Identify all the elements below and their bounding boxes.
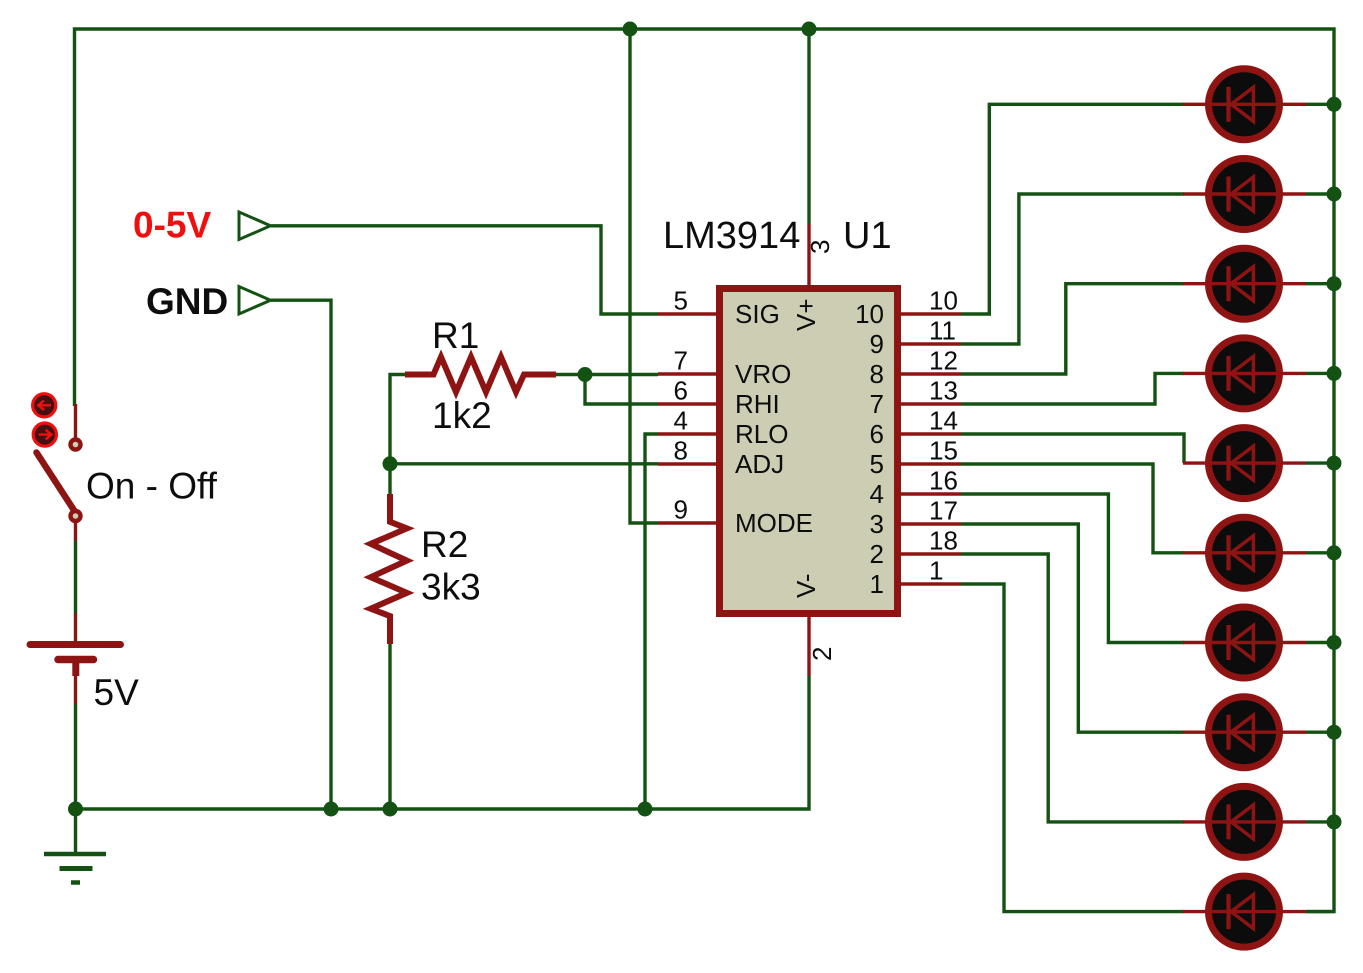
switch SW1 bottom pin stub [74, 522, 77, 541]
switch SW1 bottom contact [71, 511, 81, 521]
U1 output pin 17 stub [898, 522, 961, 525]
LED D1 [1183, 69, 1306, 140]
svg-text:1: 1 [870, 569, 884, 599]
U1 output pin 11 stub [898, 342, 961, 345]
svg-text:5V: 5V [94, 672, 140, 713]
svg-text:V+: V+ [791, 298, 821, 331]
LED D5 [1183, 428, 1306, 499]
U1 output pin 15 stub [898, 462, 961, 465]
svg-text:17: 17 [929, 496, 958, 526]
wire 0-5V input to SIG pin 5 [271, 226, 658, 314]
svg-text:ADJ: ADJ [735, 449, 784, 479]
wire ground symbol stub [74, 809, 77, 852]
svg-text:11: 11 [929, 316, 956, 346]
battery BAT1 bottom pin stub [74, 676, 77, 704]
switch SW1 blade [37, 453, 75, 512]
LED D7 [1183, 607, 1306, 678]
svg-text:GND: GND [146, 281, 228, 322]
svg-text:15: 15 [929, 436, 958, 466]
U1 output pin 16 stub [898, 492, 961, 495]
ground [44, 852, 106, 857]
svg-text:13: 13 [929, 376, 958, 406]
svg-text:8: 8 [674, 436, 688, 466]
svg-text:12: 12 [929, 346, 958, 376]
svg-text:1: 1 [929, 556, 943, 586]
switch SW1 actuator button down [33, 423, 56, 446]
svg-text:6: 6 [870, 419, 884, 449]
svg-text:SIG: SIG [735, 299, 780, 329]
svg-text:9: 9 [870, 329, 884, 359]
U1 output pin 1 stub [898, 582, 961, 585]
U1 pin 4 RLO stub [658, 432, 719, 435]
junction R1-ADJ-R2 node [383, 456, 398, 471]
svg-text:0-5V: 0-5V [133, 205, 211, 246]
wire U1 output row 2 to LED D2 [961, 194, 1184, 344]
LED D8 [1183, 697, 1306, 768]
wire LED anode bus connections [1306, 103, 1334, 106]
svg-text:3: 3 [870, 509, 884, 539]
wire V+ to MODE pin 9 [630, 29, 658, 523]
junction LED bus row 9 [1327, 814, 1342, 829]
wire RLO pin 4 to ground rail [645, 434, 658, 809]
junction LED bus row 8 [1327, 725, 1342, 740]
terminal 0-5V [239, 212, 271, 240]
resistor R2 [371, 494, 407, 644]
wire U1 output row 7 to LED D7 [961, 494, 1184, 643]
wire U1 output row 8 to LED D8 [961, 524, 1184, 732]
U1 pin 2 V- stub [807, 613, 810, 676]
junction LED bus row 4 [1327, 366, 1342, 381]
svg-text:10: 10 [929, 286, 958, 316]
svg-text:MODE: MODE [735, 508, 813, 538]
wire U1 output row 9 to LED D9 [961, 554, 1184, 822]
U1 output pin 18 stub [898, 552, 961, 555]
wire U1 output row 5 to LED D5 [961, 434, 1184, 463]
U1 pin 3 V+ stub [807, 224, 810, 288]
wire U1 output row 3 to LED D3 [961, 284, 1184, 374]
U1 pin 5 SIG stub [658, 312, 719, 315]
svg-text:4: 4 [674, 406, 688, 436]
U1 output pin 10 stub [898, 312, 961, 315]
svg-text:5: 5 [870, 449, 884, 479]
battery BAT1 negative stem [72, 660, 79, 677]
wire V+ drop to U1 pin 3 [807, 29, 810, 224]
resistor R1 [405, 357, 556, 392]
junction LED bus row 1 [1327, 97, 1342, 112]
wire battery to ground rail [74, 704, 77, 809]
wire U1 output row 10 to LED D10 [961, 584, 1184, 912]
svg-text:4: 4 [870, 479, 884, 509]
junction LED bus row 3 [1327, 276, 1342, 291]
U1 pin 7 VRO stub [658, 372, 719, 375]
svg-text:8: 8 [870, 359, 884, 389]
junction LED bus row 7 [1327, 635, 1342, 650]
svg-text:5: 5 [674, 286, 688, 316]
U1 output pin 13 stub [898, 402, 961, 405]
terminal GND [239, 287, 271, 315]
battery BAT1 top pin stub [74, 613, 77, 641]
svg-text:7: 7 [674, 346, 688, 376]
wire U1 output row 4 to LED D4 [961, 373, 1184, 404]
wire R1 left to ADJ and R2 [390, 375, 405, 495]
svg-text:2: 2 [870, 539, 884, 569]
svg-text:6: 6 [674, 376, 688, 406]
svg-text:1k2: 1k2 [432, 395, 492, 436]
svg-text:16: 16 [929, 466, 958, 496]
wire GND input to ground rail [271, 300, 331, 809]
svg-text:18: 18 [929, 526, 958, 556]
svg-text:U1: U1 [843, 215, 892, 257]
switch SW1 top pin stub [74, 404, 77, 438]
svg-text:9: 9 [674, 495, 688, 525]
LED D9 [1183, 786, 1306, 857]
U1 pin 9 MODE stub [658, 521, 719, 524]
junction VRO node [578, 367, 593, 382]
svg-text:R1: R1 [432, 315, 479, 356]
U1 output pin 14 stub [898, 432, 961, 435]
wire U1 output row 1 to LED D1 [961, 104, 1184, 314]
battery BAT1 positive plate [30, 641, 121, 648]
svg-text:LM3914: LM3914 [663, 215, 800, 257]
LED D2 [1183, 159, 1306, 230]
junction LED bus row 5 [1327, 456, 1342, 471]
wire U1 output row 6 to LED D6 [961, 464, 1184, 553]
wire R1 right to VRO pin 7 [556, 373, 658, 376]
svg-text:3k3: 3k3 [421, 567, 481, 608]
svg-text:3: 3 [805, 240, 835, 254]
battery BAT1 negative plate [58, 656, 94, 664]
wire R2 bottom to ground rail [388, 644, 391, 809]
LED D3 [1183, 248, 1306, 319]
svg-text:10: 10 [855, 299, 884, 329]
junction ground rail GND input [324, 802, 339, 817]
junction LED bus row 6 [1327, 545, 1342, 560]
switch SW1 top contact [71, 440, 81, 450]
svg-text:2: 2 [807, 647, 837, 661]
svg-text:VRO: VRO [735, 359, 791, 389]
junction ground rail RLO [638, 802, 653, 817]
svg-text:7: 7 [870, 389, 884, 419]
LED D6 [1183, 517, 1306, 588]
U1 output pin 12 stub [898, 372, 961, 375]
op-amp U1 LM3914 body [720, 289, 898, 614]
LED D4 [1183, 338, 1306, 409]
wire ground rail [76, 676, 810, 809]
LED D10 [1183, 876, 1306, 947]
wire VRO to RHI pin 6 [585, 375, 658, 405]
svg-text:RHI: RHI [735, 389, 780, 419]
junction ground rail R2 [383, 802, 398, 817]
junction top rail x630 [623, 22, 638, 37]
U1 pin 6 RHI stub [658, 402, 719, 405]
wire switch to battery [74, 541, 77, 613]
junction LED bus row 2 [1327, 187, 1342, 202]
U1 pin 8 ADJ stub [658, 462, 719, 465]
junction ground rail battery [68, 802, 83, 817]
svg-text:On - Off: On - Off [86, 466, 218, 507]
svg-text:R2: R2 [421, 524, 468, 565]
svg-text:RLO: RLO [735, 419, 788, 449]
wire ADJ pin 8 [390, 462, 658, 465]
junction top rail x809 [802, 22, 817, 37]
switch SW1 actuator button up [33, 394, 56, 417]
svg-text:14: 14 [929, 406, 958, 436]
svg-text:V-: V- [791, 573, 821, 598]
